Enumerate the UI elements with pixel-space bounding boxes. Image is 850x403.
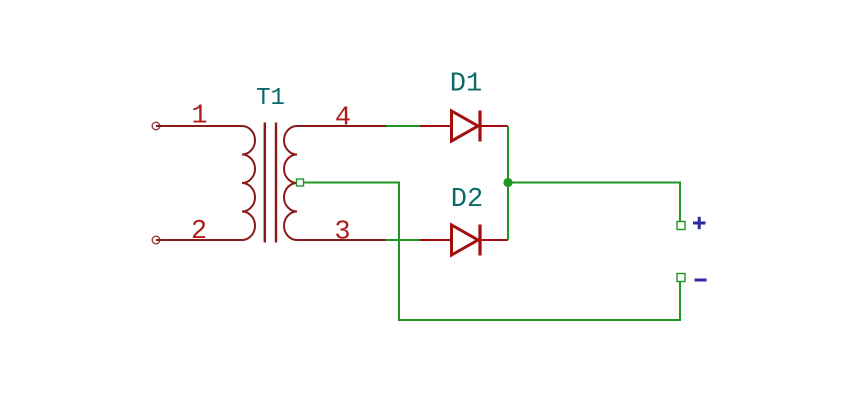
- svg-text:3: 3: [334, 218, 350, 248]
- diode D2 triangle: [452, 225, 479, 255]
- transformer T1 secondary winding: [284, 126, 297, 240]
- pin 4 wire: [297, 125, 386, 127]
- diode D1 cathode pin: [480, 125, 508, 127]
- svg-text:1: 1: [191, 102, 207, 132]
- wire pin3 to D2 anode: [386, 239, 421, 241]
- plus label: [693, 222, 706, 225]
- diode D2 cathode pin: [480, 239, 508, 241]
- svg-text:D1: D1: [450, 70, 482, 100]
- diode D2 cathode bar: [478, 225, 481, 256]
- transformer T1 core: [264, 123, 266, 243]
- svg-text:D2: D2: [451, 185, 483, 215]
- minus terminal square: [677, 274, 685, 282]
- transformer T1 primary winding: [242, 126, 255, 240]
- minus label: [695, 279, 707, 282]
- diode D2 anode pin: [420, 239, 452, 241]
- plus terminal square: [677, 222, 685, 230]
- pin 1 wire: [156, 125, 242, 127]
- svg-text:T1: T1: [256, 85, 285, 112]
- diode D1 anode pin: [420, 125, 452, 127]
- wire pin4 to D1 anode: [386, 125, 421, 127]
- svg-text:4: 4: [335, 104, 351, 134]
- pin 2 open-end circle: [152, 236, 160, 244]
- diode D1 cathode bar: [478, 111, 481, 142]
- center tap wire to bottom rail: [303, 183, 680, 321]
- pin 2 wire: [156, 239, 242, 241]
- center tap square terminal: [297, 179, 304, 186]
- wire junction to plus terminal: [508, 183, 680, 222]
- pin 3 wire: [297, 239, 386, 241]
- svg-text:2: 2: [191, 217, 207, 247]
- junction dot: [503, 178, 512, 187]
- pin 1 open-end circle: [152, 122, 160, 130]
- diode D1 triangle: [452, 111, 479, 141]
- wire cathode bus vertical: [507, 126, 509, 240]
